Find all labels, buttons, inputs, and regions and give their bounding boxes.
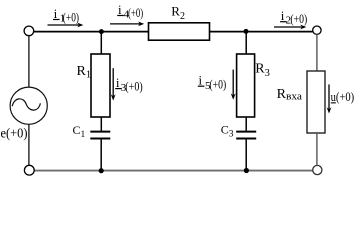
resistor R2 <box>149 23 210 40</box>
svg-text:R2: R2 <box>171 4 185 22</box>
svg-text:i: i <box>54 6 58 21</box>
terminal left bottom <box>24 165 34 175</box>
wire bottom <box>34 170 313 172</box>
wire top right <box>210 31 313 33</box>
svg-text:(+0): (+0) <box>125 80 142 94</box>
wire R1 to C1 <box>100 117 102 131</box>
svg-text:C1: C1 <box>73 123 86 140</box>
wire branch1 top <box>100 32 102 54</box>
node D bottom junction right <box>244 168 249 173</box>
svg-text:R1: R1 <box>77 64 92 81</box>
node A top junction left <box>99 29 104 34</box>
current arrow i5 <box>231 70 236 100</box>
current arrow i4 <box>110 22 144 27</box>
terminal right bottom <box>313 165 322 174</box>
current arrow i2 <box>274 25 306 30</box>
terminal left top <box>24 26 34 36</box>
capacitor C1 <box>90 131 110 133</box>
wire top left <box>34 31 149 33</box>
resistor R3 <box>237 54 255 117</box>
source e circle <box>10 87 47 124</box>
capacitor C3 <box>236 131 256 133</box>
resistor Rvx <box>307 71 325 133</box>
svg-text:i: i <box>116 75 120 90</box>
svg-text:(+0): (+0) <box>128 6 143 20</box>
current arrow i3 <box>111 68 116 100</box>
svg-text:(+0): (+0) <box>63 10 79 24</box>
svg-text:i: i <box>118 2 122 17</box>
node C bottom junction left <box>99 168 104 173</box>
label u(+0) <box>331 89 355 104</box>
terminal right top <box>313 26 321 34</box>
svg-text:e(+0): e(+0) <box>1 127 28 142</box>
wire right branch lower <box>316 133 318 165</box>
source sine wave <box>12 99 40 110</box>
wire left rail lower <box>28 124 30 165</box>
label i4(+0) <box>117 2 143 21</box>
svg-text:(+0): (+0) <box>209 78 226 92</box>
svg-text:R3: R3 <box>255 62 270 80</box>
label i1(+0) <box>53 6 79 25</box>
label i3(+0) <box>115 75 143 94</box>
current arrow i1 <box>48 23 84 28</box>
label i5(+0) <box>198 73 226 92</box>
resistor R1 <box>91 54 110 117</box>
wire branch2 top <box>245 32 247 54</box>
voltage arrow u <box>327 84 332 113</box>
wire right branch upper <box>316 34 318 71</box>
svg-text:вха: вха <box>286 92 303 103</box>
svg-text:C3: C3 <box>221 123 234 140</box>
svg-text:(+0): (+0) <box>290 12 307 26</box>
wire C3 to bottom <box>245 140 247 171</box>
wire R3 to C3 <box>245 117 247 131</box>
svg-text:i: i <box>281 8 285 23</box>
wire left rail upper <box>28 36 30 88</box>
wire C1 to bottom <box>100 140 102 171</box>
svg-text:u(+0): u(+0) <box>331 89 355 104</box>
node B top junction right <box>244 29 249 34</box>
label i2(+0) <box>280 8 307 27</box>
svg-text:i: i <box>199 73 203 88</box>
